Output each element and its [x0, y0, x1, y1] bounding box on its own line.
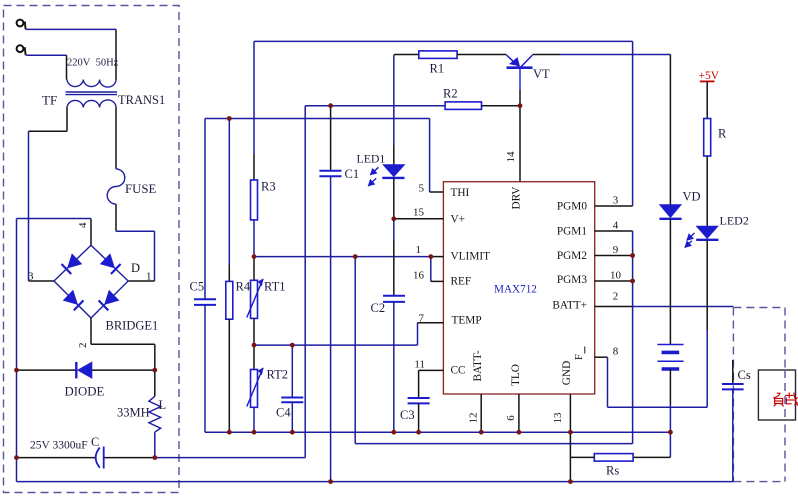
svg-text:V+: V+	[451, 214, 466, 226]
svg-text:3: 3	[613, 195, 619, 207]
svg-text:3: 3	[28, 271, 34, 283]
svg-text:8: 8	[613, 346, 619, 358]
svg-text:C1: C1	[345, 167, 360, 181]
svg-text:REF: REF	[451, 276, 472, 288]
svg-text:LED2: LED2	[720, 214, 749, 228]
svg-text:C2: C2	[371, 301, 386, 315]
svg-text:GND: GND	[561, 361, 573, 385]
svg-text:F: F	[573, 354, 585, 360]
svg-text:L: L	[159, 398, 167, 412]
svg-text:Rs: Rs	[606, 464, 619, 478]
svg-text:+5V: +5V	[699, 70, 720, 82]
svg-text:11: 11	[414, 359, 425, 371]
svg-text:BATT+: BATT+	[552, 300, 587, 312]
svg-text:2: 2	[613, 291, 619, 303]
svg-text:Cs: Cs	[738, 368, 751, 382]
svg-text:RT2: RT2	[267, 368, 288, 382]
svg-text:C: C	[91, 435, 99, 449]
svg-text:MAX712: MAX712	[494, 284, 537, 296]
svg-text:PGM3: PGM3	[557, 274, 587, 286]
svg-text:CC: CC	[451, 365, 466, 377]
svg-text:4: 4	[77, 222, 89, 228]
svg-text:14: 14	[505, 151, 517, 163]
svg-text:VD: VD	[683, 190, 701, 204]
svg-text:33MH: 33MH	[117, 406, 150, 420]
svg-text:2: 2	[77, 343, 89, 349]
svg-text:TRANS1: TRANS1	[118, 93, 165, 107]
svg-text:BRIDGE1: BRIDGE1	[106, 319, 159, 333]
svg-text:4: 4	[613, 220, 619, 232]
svg-text:1: 1	[416, 244, 422, 256]
svg-text:220V 50Hz: 220V 50Hz	[67, 58, 119, 69]
svg-text:1: 1	[146, 271, 152, 283]
svg-text:10: 10	[610, 270, 622, 282]
svg-text:15: 15	[413, 207, 425, 219]
svg-text:R2: R2	[443, 87, 458, 101]
svg-text:PGM1: PGM1	[557, 226, 587, 238]
svg-text:R: R	[718, 127, 727, 141]
svg-text:FUSE: FUSE	[125, 182, 156, 196]
svg-text:TLO: TLO	[510, 364, 522, 386]
svg-text:5: 5	[419, 182, 425, 194]
svg-text:THI: THI	[451, 187, 470, 199]
svg-text:C3: C3	[400, 408, 415, 422]
svg-text:13: 13	[552, 412, 564, 424]
svg-text:VLIMIT: VLIMIT	[451, 251, 491, 263]
svg-text:7: 7	[419, 313, 425, 325]
svg-text:PGM2: PGM2	[557, 250, 587, 262]
svg-text:PGM0: PGM0	[557, 201, 587, 213]
svg-text:12: 12	[468, 413, 480, 424]
svg-text:6: 6	[505, 415, 517, 421]
svg-text:DRV: DRV	[511, 186, 523, 210]
svg-text:16: 16	[413, 270, 425, 282]
svg-text:BATT-: BATT-	[472, 350, 484, 381]
svg-text:LED1: LED1	[357, 152, 386, 166]
svg-text:VT: VT	[533, 67, 550, 81]
svg-text:C4: C4	[276, 406, 291, 420]
svg-text:C5: C5	[190, 280, 205, 294]
svg-text:D: D	[131, 261, 140, 275]
svg-text:9: 9	[613, 244, 619, 256]
svg-text:TEMP: TEMP	[452, 315, 482, 327]
svg-text:TF: TF	[42, 93, 57, 108]
svg-text:R4: R4	[236, 280, 251, 294]
svg-text:R3: R3	[261, 180, 276, 194]
svg-text:RT1: RT1	[264, 280, 285, 294]
svg-text:25V 3300uF: 25V 3300uF	[30, 440, 88, 452]
svg-text:DIODE: DIODE	[65, 385, 105, 399]
svg-text:R1: R1	[430, 62, 445, 76]
